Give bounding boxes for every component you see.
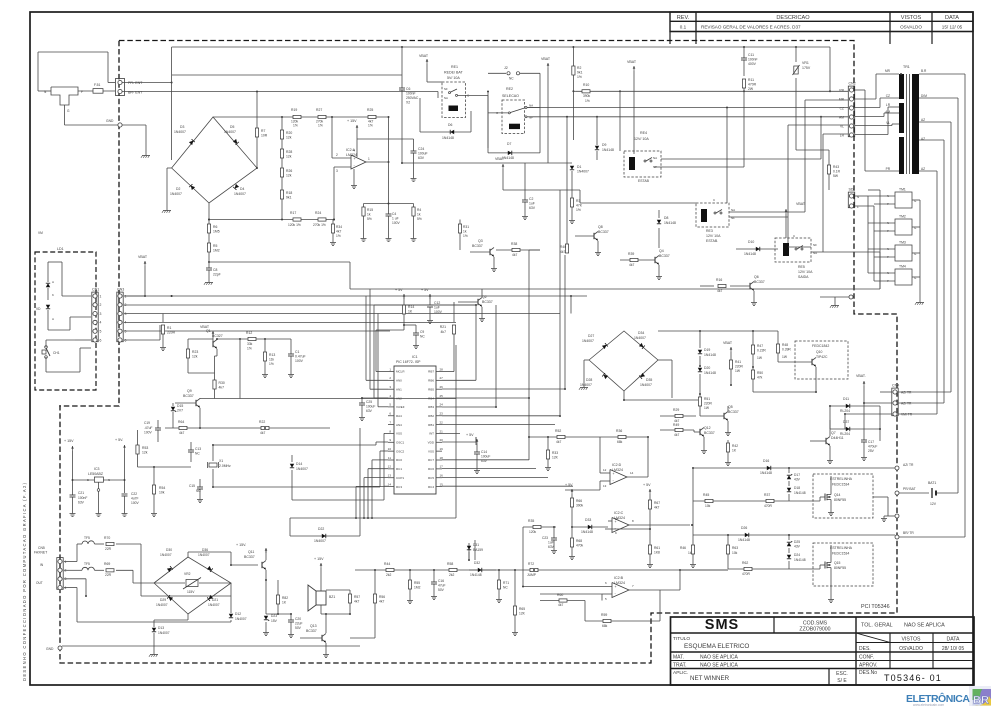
- op-amp IC2:C LM324: [612, 518, 629, 533]
- svg-text:1N4007: 1N4007: [160, 553, 172, 557]
- svg-text:OSVALDO: OSVALDO: [900, 25, 922, 30]
- wire J2 to RE2 NA: [539, 73, 541, 153]
- svg-text:R21: R21: [440, 325, 446, 329]
- svg-text:12: 12: [388, 465, 392, 469]
- transistor Q13 BC337: [321, 635, 323, 641]
- svg-text:APLIC.: APLIC.: [673, 670, 688, 676]
- resistor R39 4k7: [630, 258, 638, 261]
- transistor Q12 BC337: [699, 429, 701, 435]
- svg-text:+ 5V: + 5V: [466, 433, 474, 437]
- svg-text:43V: 43V: [794, 545, 801, 549]
- resistor R46 1k: [691, 545, 694, 554]
- battery BAT1 12V: [899, 492, 929, 494]
- wire junction: [699, 365, 701, 367]
- svg-text:LD1: LD1: [57, 247, 64, 251]
- wire RB6: [442, 379, 476, 381]
- svg-text:25: 25: [440, 394, 444, 398]
- capacitor C2 1uF 63V: [524, 163, 526, 200]
- svg-text:63V: 63V: [548, 545, 555, 549]
- svg-text:B.R: B.R: [921, 69, 927, 73]
- svg-text:D26: D26: [741, 526, 747, 530]
- svg-text:21: 21: [440, 429, 444, 433]
- svg-text:C17: C17: [868, 440, 874, 444]
- svg-text:R30: R30: [219, 381, 225, 385]
- resistor R28 12k: [280, 149, 283, 158]
- svg-text:1N4007: 1N4007: [314, 539, 326, 543]
- resistor R40 4k7: [566, 236, 568, 244]
- svg-text:V.REF: V.REF: [396, 405, 405, 409]
- diode D12 1N4007: [230, 583, 232, 613]
- svg-text:JUMP: JUMP: [527, 573, 537, 577]
- relay RE1 REDE/BAT: [442, 82, 466, 118]
- svg-text:RC1: RC1: [396, 467, 402, 471]
- svg-text:LM324: LM324: [612, 468, 623, 472]
- wire junction: [829, 405, 831, 407]
- svg-text:NA: NA: [444, 96, 448, 100]
- svg-text:Q9: Q9: [187, 389, 192, 393]
- svg-text:1N4007: 1N4007: [156, 603, 168, 607]
- svg-text:R22: R22: [259, 420, 265, 424]
- trunk v880: [879, 190, 881, 289]
- svg-text:+ 5V.: + 5V.: [115, 438, 123, 442]
- svg-text:0.22R: 0.22R: [757, 349, 766, 353]
- svg-text:BC337: BC337: [754, 280, 765, 284]
- svg-text:4k7: 4k7: [560, 250, 565, 254]
- svg-text:D27: D27: [588, 334, 594, 338]
- wire junction: [572, 46, 574, 48]
- svg-text:CN2: CN2: [849, 82, 856, 86]
- svg-text:68k: 68k: [617, 440, 623, 444]
- svg-text:11: 11: [388, 456, 391, 460]
- diode D30 1N4007: [167, 566, 173, 572]
- svg-text:ZZOB079000: ZZOB079000: [799, 627, 830, 633]
- svg-text:R53: R53: [142, 446, 148, 450]
- svg-text:470R: 470R: [742, 572, 751, 576]
- node on boundary: [849, 295, 853, 299]
- svg-text:VR2: VR2: [184, 572, 191, 576]
- svg-text:CCP1: CCP1: [396, 476, 404, 480]
- svg-text:1N4148: 1N4148: [442, 136, 454, 140]
- diode D33 1N4148: [572, 526, 608, 528]
- wire junction: [863, 402, 865, 404]
- svg-text:1%: 1%: [247, 347, 252, 351]
- svg-text:1k: 1k: [688, 551, 692, 555]
- trunk v529: [528, 250, 530, 460]
- svg-text:IC2:B: IC2:B: [614, 576, 624, 580]
- svg-text:220R: 220R: [167, 331, 176, 335]
- svg-text:.47uF: .47uF: [144, 426, 152, 430]
- resistor R22 4k7: [200, 427, 330, 429]
- svg-text:D18: D18: [794, 486, 800, 490]
- svg-text:3: 3: [65, 577, 67, 581]
- svg-text:10: 10: [615, 517, 619, 521]
- svg-text:1M2: 1M2: [213, 249, 220, 253]
- svg-text:R63: R63: [732, 546, 738, 550]
- svg-text:RC6: RC6: [428, 467, 434, 471]
- trunk v523: [522, 527, 524, 587]
- wire bridge2 out: [658, 359, 672, 361]
- svg-text:R13: R13: [269, 353, 275, 357]
- svg-text:MR: MR: [839, 97, 845, 101]
- svg-text:OSC2: OSC2: [396, 449, 405, 453]
- svg-text:1%: 1%: [318, 124, 323, 128]
- resistor R71 NC: [498, 570, 500, 580]
- resistor R70 22R: [106, 542, 114, 545]
- svg-text:D31: D31: [473, 543, 479, 547]
- svg-text:R70: R70: [104, 536, 110, 540]
- svg-text:D32: D32: [474, 561, 480, 565]
- svg-text:VD: VD: [36, 307, 41, 311]
- relay RE3 ESTAB: [696, 203, 729, 227]
- svg-text:RA4: RA4: [396, 414, 402, 418]
- wire junction: [649, 528, 651, 530]
- svg-text:4k7: 4k7: [379, 600, 384, 604]
- svg-text:C13: C13: [195, 447, 201, 451]
- svg-text:25V: 25V: [868, 449, 875, 453]
- svg-text:80NF55: 80NF55: [834, 498, 846, 502]
- svg-text:1%: 1%: [577, 75, 582, 79]
- wire BRTR: [899, 536, 965, 538]
- svg-text:47k: 47k: [757, 376, 763, 380]
- svg-text:OUT: OUT: [36, 581, 43, 585]
- svg-text:VISTOS: VISTOS: [901, 15, 922, 21]
- capacitor C4 1uF 100V: [388, 204, 390, 215]
- svg-text:C22: C22: [131, 492, 137, 496]
- transistor Q1 BC327: [212, 341, 214, 347]
- svg-text:RC4: RC4: [428, 485, 434, 489]
- varistor VR2 115V: [154, 582, 185, 584]
- svg-text:1M5: 1M5: [213, 230, 220, 234]
- svg-text:X1: X1: [219, 459, 223, 463]
- svg-text:50V: 50V: [438, 588, 445, 592]
- wire junction: [795, 46, 797, 48]
- wire row501: [693, 500, 820, 502]
- svg-text:19: 19: [440, 447, 444, 451]
- resistor R63 10k: [727, 535, 729, 545]
- svg-text:ESQUEMA ELETRICO: ESQUEMA ELETRICO: [684, 643, 749, 650]
- svg-text:12k: 12k: [286, 174, 292, 178]
- svg-text:R24: R24: [315, 211, 321, 215]
- zener D15 2V7: [171, 407, 175, 411]
- wire VSS gnd: [384, 432, 388, 434]
- fuse TF5b: [64, 569, 77, 571]
- wire RC1 left: [368, 468, 388, 470]
- svg-text:12V: 12V: [930, 502, 937, 506]
- svg-text:C21: C21: [78, 491, 84, 495]
- svg-text:R26: R26: [286, 169, 292, 173]
- wire row305: [124, 304, 476, 306]
- svg-text:D13: D13: [158, 626, 164, 630]
- svg-text:R38: R38: [511, 242, 517, 246]
- resistor R51 220R 1W: [699, 394, 701, 397]
- svg-text:R45: R45: [703, 493, 709, 497]
- svg-text:D30: D30: [166, 548, 172, 552]
- wire junction: [564, 388, 566, 390]
- svg-text:BAT1: BAT1: [928, 481, 936, 485]
- wire bridge2 arms: [589, 331, 658, 391]
- wire junction: [730, 384, 732, 386]
- wire osc left pins: [376, 441, 388, 443]
- svg-text:TM3: TM3: [899, 241, 906, 245]
- svg-text:D11: D11: [843, 397, 849, 401]
- crystal X1 2.0MHz: [209, 463, 217, 467]
- resistor R33 12K: [547, 437, 549, 450]
- node PR-ENT: [118, 80, 122, 84]
- svg-text:220R: 220R: [704, 402, 713, 406]
- resistor R57 4k7: [349, 590, 351, 594]
- wire row322: [124, 322, 456, 324]
- resistor R53 12k: [137, 430, 139, 445]
- svg-text:RB2: RB2: [428, 414, 434, 418]
- wire junction: [277, 613, 279, 615]
- svg-text:NF: NF: [529, 116, 533, 120]
- svg-text:Q15: Q15: [834, 561, 841, 565]
- svg-text:BC337: BC337: [306, 629, 317, 633]
- ELETRONICA BR logo: [906, 686, 991, 707]
- svg-text:R19: R19: [291, 108, 297, 112]
- svg-text:R41: R41: [735, 360, 741, 364]
- svg-text:NF: NF: [813, 243, 817, 247]
- wire junction: [514, 569, 516, 571]
- svg-text:100V: 100V: [131, 501, 140, 505]
- wire CCP1 left: [364, 477, 388, 479]
- svg-text:TITULO: TITULO: [673, 636, 690, 642]
- svg-text:BA159: BA159: [473, 548, 483, 552]
- svg-text:5%: 5%: [367, 217, 372, 221]
- resistor R44 2k2: [386, 568, 394, 571]
- diode D26 1N4148: [745, 533, 749, 537]
- svg-text:12V/ 10A: 12V/ 10A: [798, 270, 813, 274]
- wire junction: [533, 569, 535, 571]
- diode D31 BA159: [468, 543, 470, 560]
- svg-text:4k7: 4k7: [441, 330, 447, 334]
- svg-text:C8: C8: [213, 268, 217, 272]
- svg-text:Q4: Q4: [659, 249, 664, 253]
- svg-text:NA: NA: [653, 156, 657, 160]
- svg-text:100nF: 100nF: [748, 58, 758, 62]
- wire junction: [212, 444, 214, 446]
- svg-text:LM324: LM324: [614, 581, 625, 585]
- wire PR line: [122, 82, 172, 84]
- resistor R60 4k7: [540, 593, 602, 595]
- capacitor C12 1uF 100V: [429, 294, 431, 305]
- svg-text:C2: C2: [529, 197, 533, 201]
- resistor R5 1M2: [207, 243, 210, 252]
- svg-text:1%: 1%: [269, 362, 274, 366]
- svg-text:+ 15V: + 15V: [347, 119, 357, 123]
- connector CN4: [892, 388, 898, 416]
- capacitor C24 100uF 63V: [357, 138, 414, 140]
- wire junction: [900, 73, 902, 75]
- resistor R24 270k: [318, 218, 326, 221]
- op-amp IC2:D LM324: [610, 470, 627, 485]
- svg-text:R43: R43: [833, 165, 839, 169]
- resistor R14 1K: [403, 294, 405, 305]
- svg-text:R64: R64: [178, 420, 184, 424]
- svg-text:470R: 470R: [748, 83, 757, 87]
- IC IC1 PIC16F72: [394, 366, 436, 494]
- svg-text:12k: 12k: [142, 451, 148, 455]
- svg-text:APROV.: APROV.: [859, 663, 877, 669]
- svg-text:AZ: AZ: [921, 167, 925, 171]
- svg-text:NA: NA: [731, 208, 735, 212]
- wire row339 left: [188, 338, 213, 340]
- svg-text:1N4007: 1N4007: [235, 617, 247, 621]
- svg-text:D4: D4: [240, 187, 244, 191]
- svg-text:BC337: BC337: [659, 254, 670, 258]
- svg-text:47uF: 47uF: [438, 584, 446, 588]
- svg-text:9k1: 9k1: [577, 71, 583, 75]
- svg-text:INT: INT: [429, 432, 434, 436]
- svg-text:D6: D6: [448, 123, 452, 127]
- svg-text:1N4148: 1N4148: [704, 353, 716, 357]
- svg-text:NC: NC: [509, 77, 514, 81]
- wire RB1 row: [442, 424, 555, 426]
- wire junction: [409, 569, 411, 571]
- wire junction: [727, 534, 729, 536]
- svg-text:Q5: Q5: [728, 405, 733, 409]
- trunk v788: [787, 125, 789, 247]
- resistor R61 1K8: [649, 529, 651, 545]
- svg-text:VBAT: VBAT: [495, 157, 505, 161]
- zener D23 15V: [265, 580, 267, 614]
- diode D7 1N4148: [488, 152, 540, 154]
- boundary node AZ/TR: [895, 466, 899, 470]
- secondary bus v4: [943, 140, 945, 403]
- svg-text:ESTRELINHA: ESTRELINHA: [830, 546, 853, 550]
- svg-text:10k: 10k: [705, 504, 711, 508]
- svg-text:R31: R31: [463, 225, 469, 229]
- svg-text:www.eletronicabr.com: www.eletronicabr.com: [913, 703, 944, 707]
- wire mains second: [172, 74, 402, 76]
- transformer TR1 secondary bar: [912, 74, 919, 174]
- svg-text:D21: D21: [212, 598, 218, 602]
- svg-text:CH1: CH1: [53, 351, 60, 355]
- wire plug loop: [38, 51, 108, 53]
- svg-text:+ 5V: + 5V: [565, 483, 573, 487]
- svg-text:1N4148: 1N4148: [794, 491, 806, 495]
- wire GND bus: [62, 645, 360, 647]
- svg-text:RL204: RL204: [840, 432, 850, 436]
- svg-text:100uF: 100uF: [418, 152, 428, 156]
- svg-text:FEDC1534: FEDC1534: [832, 552, 849, 556]
- wire row331 mid: [658, 330, 778, 332]
- zener D17 43V: [788, 468, 790, 473]
- wire row569: [728, 568, 820, 570]
- svg-text:4: 4: [100, 321, 102, 325]
- wire junction: [647, 436, 649, 438]
- svg-text:R46: R46: [680, 546, 686, 550]
- svg-text:22pF: 22pF: [213, 273, 221, 277]
- svg-text:Q1: Q1: [206, 329, 211, 333]
- svg-text:TR1: TR1: [903, 65, 910, 69]
- svg-text:R35: R35: [528, 519, 534, 523]
- wire VR1 to R43: [796, 149, 829, 151]
- svg-text:4k7: 4k7: [629, 263, 634, 267]
- svg-text:AN0: AN0: [396, 379, 402, 383]
- svg-text:D15: D15: [177, 404, 183, 408]
- svg-text:20: 20: [440, 438, 444, 442]
- svg-text:VBAT: VBAT: [723, 341, 733, 345]
- op-amp IC2:A LM324: [351, 155, 366, 169]
- svg-text:12k: 12k: [286, 136, 292, 140]
- resistor R69 22R: [106, 569, 114, 572]
- svg-text:IC2:D: IC2:D: [612, 463, 622, 467]
- svg-text:4k7: 4k7: [336, 230, 341, 234]
- resistor R15 1k 5%: [363, 204, 365, 208]
- svg-text:R61: R61: [654, 546, 660, 550]
- power inlet plug: [51, 87, 78, 105]
- wire row163: [402, 162, 572, 164]
- svg-text:2V7: 2V7: [177, 409, 183, 413]
- svg-text:NC: NC: [503, 586, 508, 590]
- svg-text:3: 3: [100, 312, 102, 316]
- svg-text:AZ: AZ: [921, 118, 925, 122]
- capacitor C20b 22uF 50V: [290, 614, 292, 620]
- transistor Q11 BC337: [261, 562, 263, 568]
- svg-text:VBAT.: VBAT.: [856, 374, 866, 378]
- trunk v496: [495, 305, 497, 407]
- svg-text:28/ 10/ 05: 28/ 10/ 05: [942, 646, 964, 652]
- svg-text:10k: 10k: [732, 551, 738, 555]
- svg-text:BC337: BC337: [482, 300, 493, 304]
- svg-text:D14: D14: [296, 462, 302, 466]
- wire AN1 to row289: [370, 388, 388, 390]
- svg-text:TM4: TM4: [899, 265, 906, 269]
- wire RB5 row: [442, 388, 565, 390]
- resistor R12 33k: [248, 337, 256, 340]
- svg-text:R66: R66: [576, 499, 582, 503]
- svg-text:R2: R2: [577, 66, 581, 70]
- svg-text:1N4007: 1N4007: [634, 336, 646, 340]
- diode D11 RL204: [830, 405, 880, 407]
- svg-text:R50: R50: [757, 371, 763, 375]
- TM ground bus: [919, 200, 921, 300]
- svg-text:VBAT: VBAT: [796, 202, 806, 206]
- wire junction: [692, 467, 694, 469]
- svg-text:R16: R16: [716, 278, 722, 282]
- resistor R67 4k7: [648, 500, 651, 509]
- resistor R35 120k: [523, 526, 556, 528]
- wire junction: [522, 586, 524, 588]
- resistor R13 11k: [264, 339, 266, 352]
- svg-text:RC7: RC7: [428, 458, 434, 462]
- svg-text:1K8: 1K8: [654, 551, 660, 555]
- wire junction: [171, 295, 173, 297]
- svg-text:R42: R42: [732, 444, 738, 448]
- svg-text:CONF.: CONF.: [859, 655, 874, 661]
- svg-text:NAO SE APLICA: NAO SE APLICA: [700, 663, 738, 669]
- svg-text:1N4007: 1N4007: [577, 170, 589, 174]
- svg-text:D12: D12: [235, 612, 241, 616]
- svg-text:R72: R72: [528, 562, 534, 566]
- wire junction: [623, 399, 625, 401]
- svg-text:Q3: Q3: [478, 239, 483, 243]
- resistor R50 47k: [752, 367, 754, 370]
- svg-text:TF5: TF5: [84, 536, 90, 540]
- wire bridge3 right feed: [140, 544, 142, 596]
- svg-text:115V: 115V: [187, 590, 195, 594]
- wire cn5 pin3: [64, 578, 86, 580]
- svg-text:1N4007: 1N4007: [158, 631, 170, 635]
- op-amp IC2:B LM324: [612, 583, 629, 598]
- wire IC2D inputs: [599, 437, 601, 473]
- svg-text:VSS: VSS: [428, 449, 434, 453]
- transistor Q4 BC337: [654, 257, 656, 263]
- svg-text:VM/ TR: VM/ TR: [901, 413, 913, 417]
- svg-text:RB7: RB7: [428, 370, 434, 374]
- wire row468: [693, 467, 895, 469]
